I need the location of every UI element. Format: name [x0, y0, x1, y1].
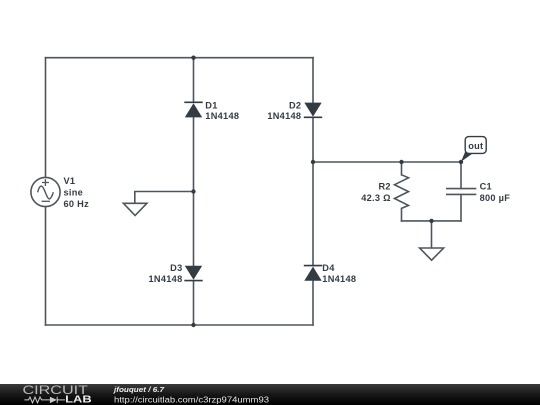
- wire top rail: [46, 57, 314, 59]
- D4 labels: [322, 263, 356, 284]
- svg-text:1N4148: 1N4148: [267, 111, 301, 121]
- node bottom rail junction: [191, 323, 195, 327]
- svg-text:42.3 Ω: 42.3 Ω: [361, 193, 391, 203]
- ground (right): [420, 248, 444, 260]
- svg-text:out: out: [468, 141, 483, 151]
- wire D1/D3 column: [193, 58, 195, 325]
- wire right ground stem: [431, 221, 433, 248]
- svg-text:1N4148: 1N4148: [322, 274, 356, 284]
- svg-text:C1: C1: [480, 181, 492, 191]
- diode D1: [184, 102, 202, 117]
- diode D4: [304, 266, 322, 281]
- wire to left ground: [135, 192, 194, 204]
- svg-text:sine: sine: [64, 187, 84, 197]
- V1 labels: [64, 176, 90, 209]
- wire bottom rail: [46, 324, 314, 326]
- svg-text:D4: D4: [322, 263, 335, 273]
- node ground junction bottom right: [429, 219, 433, 223]
- svg-text:D3: D3: [170, 263, 182, 273]
- wire left vertical (top, V1 to top rail): [45, 58, 47, 178]
- svg-text:LAB: LAB: [65, 394, 92, 405]
- svg-text:V1: V1: [64, 176, 76, 186]
- wire C1 leads: [460, 162, 462, 221]
- D1 labels: [205, 100, 239, 121]
- node top rail junction: [191, 56, 195, 60]
- wire bottom right rail: [402, 220, 462, 222]
- svg-text:http://circuitlab.com/c3rzp974: http://circuitlab.com/c3rzp974umm93: [114, 395, 269, 404]
- logo squiggle wire with resistor and diode: [24, 397, 65, 403]
- svg-text:800 µF: 800 µF: [480, 193, 511, 203]
- svg-text:D2: D2: [289, 100, 301, 110]
- svg-text:60 Hz: 60 Hz: [64, 199, 90, 209]
- ground (left): [123, 203, 146, 215]
- wire D2/D4 column: [312, 58, 314, 325]
- footer bar: [0, 383, 540, 405]
- svg-text:R2: R2: [378, 182, 390, 192]
- diode D3: [184, 266, 202, 281]
- node out flag: [461, 137, 486, 162]
- voltage source V1: [31, 177, 60, 206]
- svg-text:D1: D1: [205, 100, 217, 110]
- capacitor C1: [446, 189, 476, 195]
- wire left vertical (V1 bottom to bottom rail): [45, 207, 47, 325]
- R2 labels: [361, 182, 391, 204]
- svg-text:1N4148: 1N4148: [205, 111, 239, 121]
- D2 labels: [267, 100, 301, 121]
- junction node dots: [191, 56, 463, 328]
- diode D2: [304, 103, 322, 118]
- svg-text:1N4148: 1N4148: [149, 274, 183, 284]
- svg-text:jfouquet / 6.7: jfouquet / 6.7: [113, 385, 165, 394]
- node V1/ground/D1/D3 junction: [191, 189, 195, 193]
- node D2/D4/out junction: [311, 160, 315, 164]
- node out/C1 junction: [459, 160, 463, 164]
- wire R2 leads: [401, 162, 403, 221]
- node R2 top junction: [399, 160, 403, 164]
- wire right rail (out net): [313, 161, 461, 163]
- resistor R2: [395, 175, 409, 209]
- C1 labels: [480, 181, 511, 203]
- D3 labels: [149, 263, 183, 284]
